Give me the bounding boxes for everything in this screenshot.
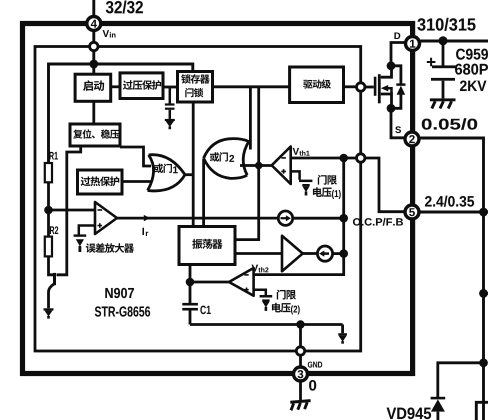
- IC internal boundary box: [35, 47, 361, 352]
- pin 3: [294, 367, 308, 381]
- block overvoltage protection 过压保护: [120, 73, 163, 99]
- label 0 at pin 3: [309, 380, 316, 391]
- label 门限 threshold 1: [318, 175, 337, 185]
- wire pin4 to startup block: [92, 31, 95, 74]
- junction dot drive line: [255, 162, 263, 170]
- diode body diode: [391, 66, 406, 109]
- capacitor C1: [182, 303, 198, 325]
- block reset regulator 复位、稳压: [70, 124, 120, 146]
- minus sign Vth1: [281, 157, 286, 159]
- op-amp error amplifier: [95, 202, 117, 234]
- wire to diode VD945: [438, 363, 484, 399]
- wire oscillator to buffer: [235, 252, 282, 255]
- junction node divider tap: [44, 206, 53, 215]
- wire reset block down to transistor: [57, 146, 81, 275]
- label 误差放大器: [86, 243, 134, 253]
- label C1: [200, 306, 210, 314]
- wire right bus stub to edge: [484, 292, 488, 295]
- wire buffer to CS2: [303, 252, 318, 255]
- wire oscillator bottom to C1: [189, 265, 192, 304]
- MOSFET source lead: [381, 94, 392, 108]
- wire drain to pin 1: [391, 43, 405, 66]
- wire OCP pin to pin 5: [365, 158, 404, 212]
- wire latch branch down to OR gate 2 input: [249, 87, 252, 150]
- wire OCP node vertical: [254, 158, 344, 275]
- wire pin 3 to ground: [299, 382, 302, 401]
- block driver stage 驱动级: [290, 67, 344, 103]
- label Vth2: [252, 265, 269, 273]
- reference plate Vth1: [299, 180, 312, 183]
- wire Vth2 plus input to reference: [254, 290, 266, 296]
- wire R1 to R2: [47, 182, 50, 236]
- wire GND node down to pin 3: [299, 325, 302, 367]
- wire Vth1 minus input to OCP node: [291, 157, 357, 160]
- reference plate Vth2: [260, 295, 273, 298]
- wire startup to OVP: [111, 85, 120, 88]
- wire driver output to gate pin: [344, 85, 357, 88]
- label Vin: [103, 30, 116, 37]
- wire OR2 output down to oscillator: [202, 159, 205, 227]
- label C959: [456, 49, 488, 60]
- ground tack bottom rail: [338, 333, 347, 344]
- wire Vth2 output to oscillator node: [190, 281, 229, 284]
- junction dot MOSFET source: [387, 104, 396, 113]
- pin 4: [87, 17, 101, 31]
- wire rail stub down: [341, 325, 344, 334]
- label 门限 threshold 2: [277, 290, 296, 300]
- wire top supply into pin 4: [92, 0, 95, 16]
- wire pin5 to right edge: [421, 211, 488, 214]
- label 310/315: [417, 18, 475, 31]
- label 680P: [455, 64, 488, 75]
- wire error amp plus input: [79, 226, 95, 235]
- junction dot MOSFET drain: [387, 61, 396, 70]
- label 2.4/0.35: [425, 196, 474, 207]
- wire pin2 to right bus: [421, 138, 484, 420]
- plus sign error amp: [98, 223, 103, 228]
- wire source to pin 2: [391, 108, 405, 138]
- IC pin circle GND: [296, 347, 304, 355]
- transistor Q1 bar: [53, 273, 56, 285]
- junction dot right bus pin5 row: [479, 208, 488, 217]
- wire error amp output Ir: [117, 217, 277, 220]
- wire Vth1 plus input to reference: [291, 171, 300, 179]
- ground tack transistor emitter: [44, 308, 54, 318]
- or-gate 1 或门1: [148, 155, 185, 191]
- frame outer border: [23, 24, 413, 374]
- ground tack Vth1 reference: [302, 184, 309, 196]
- wire OVP to latch: [163, 86, 178, 89]
- junction dot GND node: [296, 320, 304, 328]
- block thermal protection 过热保护: [78, 170, 123, 194]
- wire bottom rail: [190, 323, 343, 326]
- label 32/32: [106, 1, 143, 14]
- MOSFET drain lead: [381, 66, 392, 77]
- label O.C.P/F.B: [353, 218, 403, 226]
- arrowhead Ir: [144, 215, 150, 221]
- label R1: [49, 152, 57, 160]
- junction dot CS2 OCP: [339, 249, 348, 258]
- wire oscillator output up to driver: [234, 87, 259, 240]
- wire OR1 output to latch/oscillator line: [185, 173, 193, 176]
- pin 1: [406, 37, 420, 51]
- block startup 启动: [75, 74, 111, 101]
- current source CS2: [317, 246, 332, 261]
- capacitor C959: [431, 43, 456, 98]
- wire thermal protection to OR gate 1 lower input: [122, 180, 151, 183]
- IC pin circle gate drive: [357, 83, 365, 91]
- MOSFET substrate arrow: [381, 85, 392, 94]
- wire latch bottom to oscillator top: [192, 102, 195, 227]
- junction dot C959 node: [439, 36, 448, 45]
- node Vin rail: [49, 64, 193, 164]
- wire CS2 to OCP vertical: [333, 252, 344, 255]
- wire OR2 input from comparator Vth1: [240, 164, 273, 167]
- current source CS1: [278, 211, 292, 225]
- resistor R2: [45, 237, 52, 257]
- block oscillator 振荡器: [179, 227, 235, 265]
- transistor MOSFET channel bar: [378, 74, 381, 103]
- reference plate error amp: [74, 234, 87, 236]
- wire latch output to driver input: [213, 85, 290, 88]
- wire gate pin to MOSFET gate: [365, 86, 374, 89]
- IC pin circle OCP feedback: [357, 154, 365, 162]
- block latch 锁存器闩锁: [178, 72, 213, 103]
- or-gate 2 或门2: [204, 139, 249, 179]
- junction dot right bus mid: [479, 289, 488, 298]
- label Ir: [143, 228, 149, 236]
- transistor Q1 emitter: [49, 284, 55, 309]
- junction dot oscillator cap node: [186, 278, 195, 287]
- wire reset block to OR gate 1 upper input: [120, 147, 151, 166]
- amplifier buffer: [282, 236, 303, 271]
- label S: [395, 126, 401, 133]
- junction dot Ir OCP: [339, 214, 348, 223]
- plus sign Vth2: [244, 288, 248, 292]
- label 2KV: [460, 81, 486, 91]
- label 电压(1): [313, 187, 341, 199]
- wire startup to reset block: [92, 101, 95, 124]
- capacitor at latch input: [165, 87, 175, 119]
- label D: [394, 32, 400, 39]
- junction dot right bus lower: [479, 358, 488, 367]
- resistor R1: [45, 163, 52, 182]
- IC pin circle Vin: [90, 42, 98, 50]
- label N907: [105, 288, 134, 298]
- plus sign Vth1: [281, 169, 286, 174]
- label 电压(2): [272, 303, 300, 315]
- comparator Vth1: [272, 147, 291, 185]
- ground tack Vth2 reference: [262, 299, 269, 311]
- wire divider tap to error amp: [49, 209, 96, 212]
- label R2: [50, 226, 58, 234]
- ground C959: [430, 98, 456, 108]
- label GND: [308, 362, 322, 368]
- wire R2 to transistor base: [49, 256, 54, 274]
- minus sign Vth2: [244, 274, 248, 276]
- diode VD945: [431, 397, 446, 420]
- ground tack error amp reference: [76, 239, 84, 252]
- label 0.05/0: [422, 118, 477, 130]
- ground tack below latch capacitor: [165, 119, 175, 129]
- plus sign C959: [427, 58, 436, 67]
- pin 5: [405, 205, 419, 219]
- wire pin1 to right edge: [421, 40, 488, 43]
- ground symbol below pin 3: [290, 401, 310, 411]
- junction dot OCP at comparator: [339, 154, 348, 163]
- pin 2: [405, 132, 419, 146]
- label VD945: [387, 407, 431, 419]
- comparator Vth2: [229, 268, 254, 296]
- wire CS1 to OCP node: [294, 217, 344, 220]
- component box bottom right corner: [476, 402, 488, 420]
- transistor MOSFET gate bar: [374, 77, 377, 96]
- minus sign error amp: [98, 209, 103, 211]
- label STR-G8656: [95, 306, 150, 316]
- junction dot Vin rail: [89, 60, 98, 69]
- label Vth1: [293, 148, 310, 156]
